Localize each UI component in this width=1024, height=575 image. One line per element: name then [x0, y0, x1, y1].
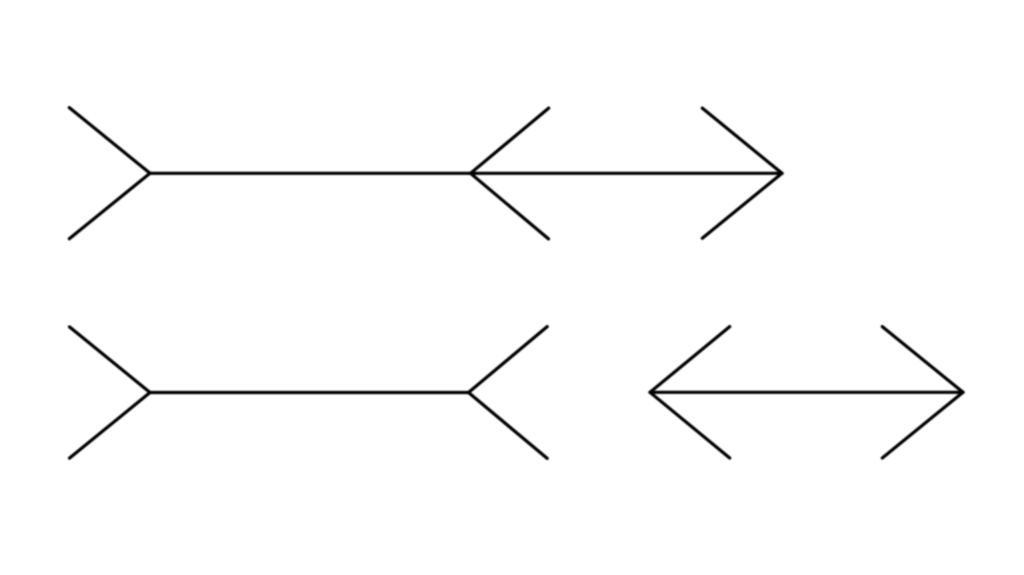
node V1: top figure left end, outward fins (wings-out tail) — [69, 108, 150, 239]
wire: bottom-left figure shaft (horizontal line V4 to V5) — [150, 391, 469, 394]
node V2: top figure middle arrowhead, fins opening right — [471, 108, 549, 239]
wire: bottom-right figure shaft (horizontal line V6 to V7) — [650, 391, 963, 394]
node V3: top figure right end arrowhead, fins opening left — [702, 108, 782, 238]
node V6: bottom-right figure left arrowhead, fins opening right — [650, 327, 730, 458]
node V7: bottom-right figure right arrowhead, fins opening left — [882, 327, 963, 458]
node V5: bottom-left figure right end, outward fins — [469, 327, 548, 459]
node V4: bottom-left figure left end, outward fins — [70, 327, 151, 458]
wire: top figure shaft (horizontal line V1 to V3) — [150, 172, 782, 175]
